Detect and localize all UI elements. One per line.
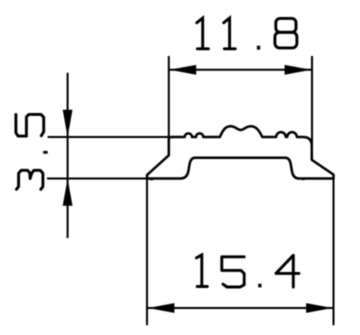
arrowhead 15.4 left	[148, 303, 175, 313]
extension line bottom-right (x=333.5)	[333, 179, 335, 325]
extension line top-right (x=312.0)	[311, 56, 313, 146]
dimension line 11.8	[170, 69, 312, 71]
arrowhead 11.8 left	[170, 65, 197, 75]
text 3.5 digit 3 (rotated 90 CCW)	[16, 170, 43, 189]
arrowhead 15.4 right	[306, 303, 333, 313]
text 15.4 digit 5	[222, 257, 244, 287]
nub on bottom edge right	[302, 178, 305, 180]
nub on bottom edge left	[150, 178, 153, 180]
arrowhead 3.5 down	[63, 110, 73, 137]
text 3.5 decimal point (rotated)	[43, 151, 47, 154]
extension line top-left (x=168.8)	[168, 56, 170, 138]
text 11.8 digit 8 lower bowl	[275, 32, 297, 48]
arrowhead 11.8 right	[285, 65, 312, 75]
profile outer outline	[147, 126, 334, 178]
text 11.8 digit 1	[197, 18, 209, 49]
dimension line 3.5 (vertical)	[67, 73, 69, 238]
text 15.4 digit 4	[276, 255, 299, 287]
text 11.8 digit 1 (second)	[224, 18, 236, 49]
text 15.4 digit 1	[196, 255, 207, 287]
extension line left upper (y=137.0)	[48, 136, 169, 138]
text 3.5 digit 5 (rotated 90 CCW)	[16, 114, 44, 136]
text 15.4 decimal point	[258, 284, 261, 288]
extension line left lower (y=178.5)	[47, 178, 147, 180]
arrowhead 3.5 up	[63, 179, 73, 206]
text 11.8 digit 8 upper bowl	[276, 18, 296, 32]
dimension line 15.4	[148, 307, 333, 309]
text 11.8 decimal point	[257, 46, 260, 50]
extension line bottom-left (x=147.0)	[146, 179, 148, 325]
